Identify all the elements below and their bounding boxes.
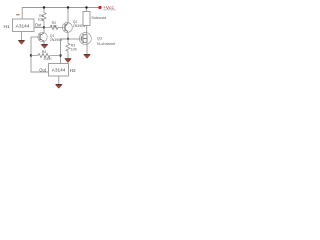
node rail dot above R1 [43, 6, 45, 8]
wire Q2 emitter to rail [67, 8, 69, 24]
svg-text:H1: H1 [4, 24, 10, 30]
wire solenoid to rail [86, 8, 88, 12]
svg-text:Solenoid: Solenoid [91, 15, 106, 20]
transistor Q2 2N3906 [62, 23, 72, 33]
svg-text:2N3904: 2N3904 [50, 38, 62, 42]
node B junction dot [67, 38, 69, 40]
wire Q2 collector to node B [67, 32, 69, 39]
wire left drop to H1 Vcc pin [21, 8, 23, 20]
svg-text:10K: 10K [71, 47, 78, 51]
node +Vcc red dot [98, 6, 101, 9]
wire Q1 emitter down [43, 41, 45, 44]
ground H1 [18, 40, 26, 44]
node A junction dot [43, 26, 45, 28]
node rail dot above Q2 [67, 6, 69, 8]
wire Q1 base net down to H2 out [31, 36, 40, 38]
pin marker near H1 top [16, 14, 18, 15]
svg-text:A3144: A3144 [16, 23, 30, 28]
node dot R4 right [59, 54, 61, 56]
hall sensor H2 box [49, 64, 69, 77]
transistor Q1 2N3904 [38, 32, 47, 41]
wire H2 gnd stub [58, 76, 60, 84]
wire H1 out to node A [34, 27, 44, 29]
ground H2 [55, 84, 63, 88]
mosfet Q3 N-channel [79, 33, 91, 45]
node dot R4 left [30, 54, 32, 56]
wire drain to solenoid [86, 26, 88, 35]
resistor R2 horizontal [44, 26, 65, 30]
wire +Vcc top rail [22, 7, 100, 9]
wire H1 gnd stub [21, 32, 23, 41]
wire source to ground [86, 42, 88, 54]
svg-text:Out: Out [39, 68, 46, 73]
node rail dot above solenoid [85, 6, 87, 8]
resistor R4 horizontal [31, 54, 61, 58]
svg-text:N-channel: N-channel [97, 41, 115, 46]
wire Q1 collector to node A [43, 28, 45, 34]
svg-text:10K: 10K [51, 24, 58, 28]
ground R3 [64, 58, 72, 62]
svg-text:H2: H2 [70, 68, 76, 74]
svg-text:A3144: A3144 [52, 67, 66, 72]
svg-text:Q3: Q3 [97, 36, 102, 40]
svg-text:100K: 100K [44, 57, 53, 61]
hall sensor H1 box [13, 19, 35, 32]
svg-text:10K: 10K [38, 18, 45, 22]
svg-text:Out: Out [35, 22, 42, 27]
wire node B left and down to H2 Vcc [61, 39, 69, 64]
svg-text:R4: R4 [42, 50, 47, 54]
ground Q3 source [83, 54, 91, 58]
ground Q1 [41, 44, 49, 48]
resistor R1 vertical [42, 8, 46, 28]
wire node B to gate [68, 38, 80, 40]
resistor R3 vertical [66, 39, 70, 58]
solenoid box [83, 12, 90, 26]
